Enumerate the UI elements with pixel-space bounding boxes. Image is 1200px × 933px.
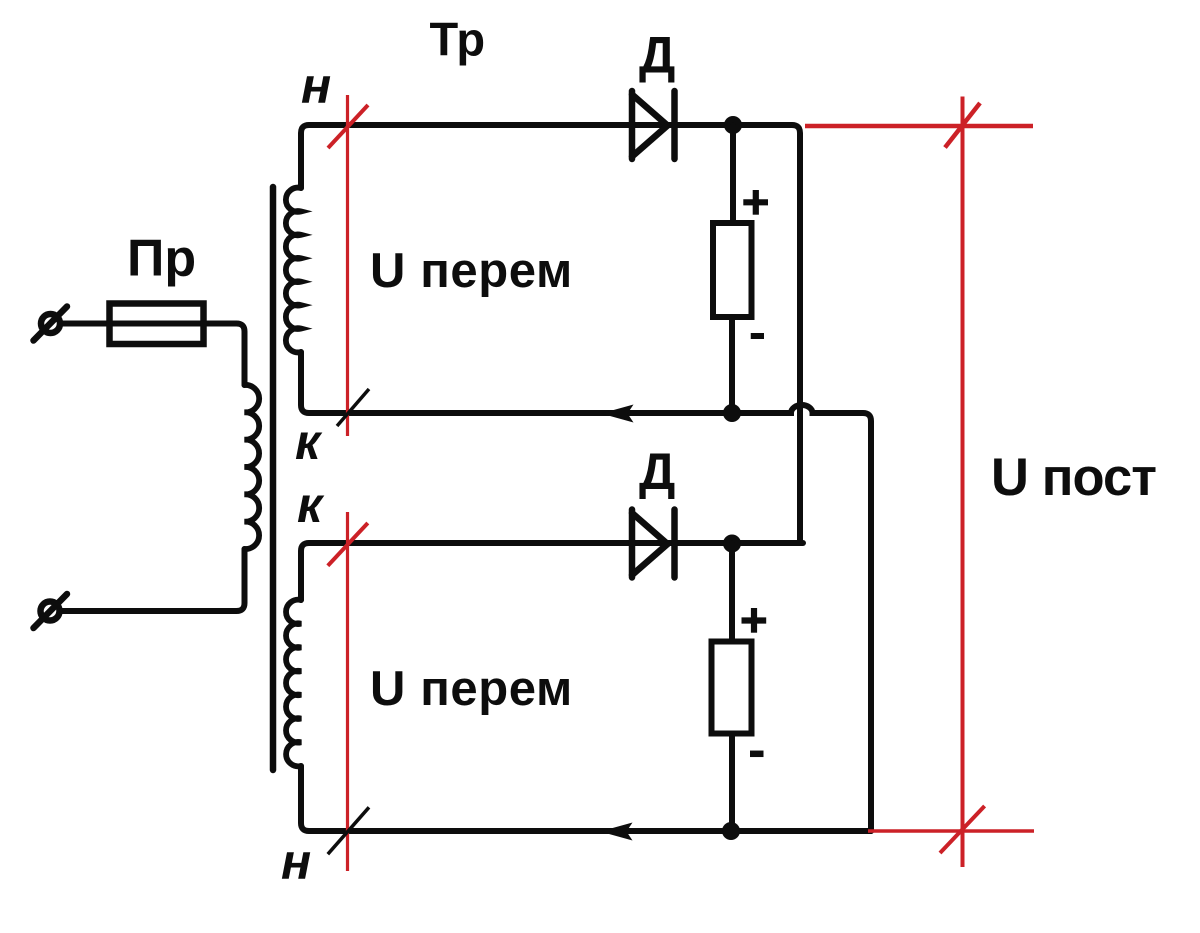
svg-text:Пр: Пр xyxy=(127,229,196,287)
junction node return wire 2 xyxy=(722,822,740,840)
red extension line bottom (U пост -) xyxy=(868,829,1034,833)
wire capacitor 2 top lead xyxy=(729,544,735,642)
wire capacitor 1 bottom lead xyxy=(729,317,735,413)
minus label load 1 xyxy=(751,333,764,339)
svg-text:U пост: U пост xyxy=(991,448,1156,507)
wire primary winding bottom to terminal X2 xyxy=(60,549,245,611)
junction node diode 1 output xyxy=(724,116,742,134)
polarized load (rectangle) 2 xyxy=(712,642,752,734)
wire secondary 1 к terminal, bottom return wire with hop over vertical, corner down to bottom node xyxy=(301,352,871,831)
junction node return wire 1 xyxy=(723,404,741,422)
red tick at U пост bottom xyxy=(940,806,985,853)
red tick at н1 crossing xyxy=(328,105,368,148)
svg-text:Тр: Тр xyxy=(430,12,486,65)
svg-text:U перем: U перем xyxy=(370,244,573,298)
transformer Тр primary winding xyxy=(245,385,260,549)
black tick at н2 crossing xyxy=(328,807,369,854)
red dimension line winding 2 xyxy=(346,512,349,871)
black tick at к1 crossing xyxy=(337,389,369,426)
svg-text:н: н xyxy=(301,58,331,114)
svg-text:к: к xyxy=(295,414,323,470)
svg-text:Д: Д xyxy=(639,443,675,500)
red dimension line U пост xyxy=(961,97,965,868)
svg-text:н: н xyxy=(281,834,311,890)
junction node diode 2 output xyxy=(723,535,741,553)
minus label load 2 xyxy=(750,751,764,758)
transformer core xyxy=(270,187,277,770)
fuse Пр xyxy=(110,304,204,345)
wire capacitor 1 top lead xyxy=(730,125,736,223)
wire capacitor 2 bottom lead xyxy=(729,734,735,832)
wire secondary 2: к terminal up, top wire xyxy=(301,543,803,600)
diode Д2 xyxy=(632,510,675,578)
wire secondary 2 н terminal, bottom return wire to right corner xyxy=(301,766,871,831)
transformer secondary winding 2 xyxy=(286,600,301,767)
wire secondary 1: н terminal up, top wire, right vertical down to second diode node xyxy=(301,125,800,543)
polarized load (rectangle) 1 xyxy=(713,223,752,317)
red tick at U пост top xyxy=(945,103,980,148)
arrow on return wire 2 (pointing left) xyxy=(600,823,633,841)
plus label load 1 xyxy=(743,190,768,215)
terminal X2 xyxy=(34,594,68,628)
wire X1 to fuse to primary winding top xyxy=(60,324,245,386)
terminal X1 xyxy=(34,307,68,341)
red dimension line winding 1 xyxy=(346,95,349,436)
red tick at к2 crossing xyxy=(328,523,368,566)
transformer secondary winding 1 xyxy=(286,188,301,353)
svg-text:Д: Д xyxy=(639,27,675,84)
arrow on return wire 1 (pointing left) xyxy=(601,405,634,423)
red extension line top (U пост +) xyxy=(805,124,1033,129)
svg-text:к: к xyxy=(297,477,325,533)
svg-text:U перем: U перем xyxy=(370,662,573,716)
diode Д1 xyxy=(632,91,675,159)
plus label load 2 xyxy=(742,608,767,633)
